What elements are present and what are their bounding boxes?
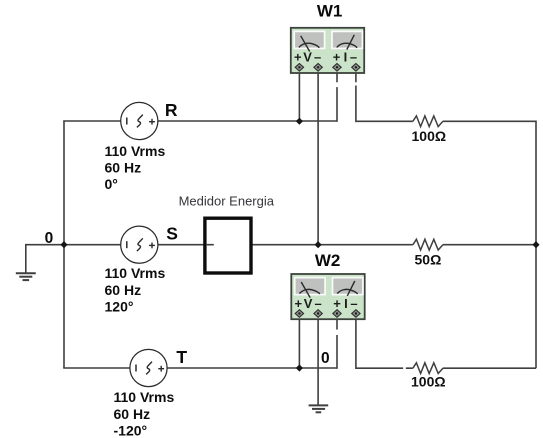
wire W1 +V terminal drop: [298, 70, 300, 122]
wire W1 V- terminal drop to S line: [317, 70, 319, 246]
wire W2 +I terminal drop: [336, 316, 338, 369]
AC source V3 T phase: [130, 349, 167, 386]
wire W1 +I terminal drop: [336, 70, 338, 122]
svg-text:S: S: [166, 224, 178, 244]
svg-text:60 Hz: 60 Hz: [105, 160, 142, 176]
svg-text:50Ω: 50Ω: [415, 252, 442, 268]
junction node S line / right bus: [532, 241, 539, 248]
svg-text:-120°: -120°: [114, 422, 148, 438]
svg-text:60 Hz: 60 Hz: [114, 406, 151, 422]
wire S line to medidor: [158, 244, 206, 246]
svg-text:I: I: [344, 296, 348, 311]
artifact white dash on W1 I- wire: [355, 82, 358, 85]
artifact white gap on T line before resistor: [403, 366, 406, 371]
svg-text:100Ω: 100Ω: [411, 373, 446, 389]
svg-text:110 Vrms: 110 Vrms: [105, 265, 166, 281]
wire T line left segment: [63, 367, 130, 369]
wattmeter W1: [291, 28, 364, 73]
svg-text:+: +: [295, 296, 303, 311]
svg-text:R: R: [165, 100, 178, 120]
svg-text:–: –: [314, 50, 321, 65]
svg-text:110 Vrms: 110 Vrms: [114, 389, 175, 405]
resistor R3 100ohm bottom: [413, 363, 443, 374]
svg-text:W2: W2: [315, 251, 341, 270]
svg-text:Medidor Energia: Medidor Energia: [179, 194, 275, 209]
AC source V2 S phase: [121, 226, 158, 263]
svg-text:+: +: [294, 50, 302, 65]
svg-text:100Ω: 100Ω: [412, 128, 447, 144]
ground GND1 left: [16, 273, 36, 280]
AC source V1 R phase: [121, 102, 158, 139]
wire S line right segment: [443, 244, 536, 246]
artifact white dash on W2 +I wire: [336, 330, 339, 335]
wire W2 I- terminal to T resistor: [356, 316, 413, 368]
wattmeter W2: [291, 274, 364, 319]
junction node S line / left bus: [60, 241, 67, 248]
svg-text:+: +: [333, 296, 341, 311]
wire W1 I- terminal to R resistor: [356, 70, 413, 121]
resistor R1 100ohm top: [413, 116, 443, 127]
wire right vertical bus: [535, 121, 537, 369]
wire W2 +V terminal drop: [298, 316, 300, 369]
wire stub inside meter box: [207, 244, 214, 246]
svg-text:0°: 0°: [105, 176, 118, 192]
svg-text:–: –: [350, 296, 357, 311]
wire R line middle segment: [158, 120, 337, 122]
svg-text:T: T: [176, 347, 187, 367]
svg-text:0: 0: [321, 350, 330, 367]
junction node S line / W1 V-: [315, 241, 322, 248]
wire left vertical bus: [63, 121, 65, 368]
wire W2 V- terminal drop to ground: [317, 316, 319, 405]
svg-text:110 Vrms: 110 Vrms: [105, 143, 166, 159]
artifact white dash on W1 +I wire: [336, 82, 339, 87]
svg-text:+: +: [333, 50, 341, 65]
svg-text:120°: 120°: [105, 298, 134, 314]
wire T line right segment: [443, 367, 536, 369]
junction node R line / W1 +V: [296, 118, 303, 125]
svg-text:V: V: [303, 50, 312, 65]
wire T line middle segment: [167, 367, 337, 369]
wire S line left segment with ground stub: [26, 244, 121, 246]
resistor R2 50ohm middle: [413, 239, 443, 250]
energy meter box Medidor Energia: [205, 218, 251, 273]
wire R line left segment: [63, 120, 121, 122]
svg-text:0: 0: [45, 230, 54, 247]
svg-text:V: V: [304, 296, 313, 311]
wire S line medidor to resistor: [251, 244, 413, 246]
svg-text:I: I: [344, 50, 348, 65]
wire R line right segment: [443, 120, 536, 122]
svg-text:W1: W1: [317, 2, 343, 21]
svg-text:–: –: [350, 50, 357, 65]
wire ground stub vertical: [25, 244, 27, 273]
junction node T line / W2 +V: [296, 364, 303, 371]
svg-text:–: –: [315, 296, 322, 311]
ground GND2 below W2: [309, 405, 329, 412]
svg-text:60 Hz: 60 Hz: [105, 282, 142, 298]
